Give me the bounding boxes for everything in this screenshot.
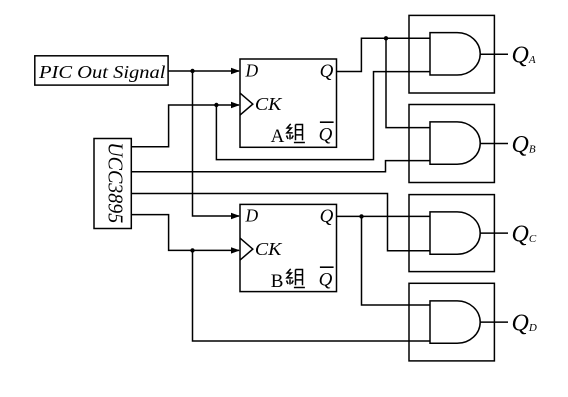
- FF1 clock edge-trigger triangle: [240, 93, 253, 115]
- CJK glyph 組 for FF1: [287, 124, 305, 143]
- AND gate U2 body: [430, 33, 480, 75]
- CJK glyph 組 for FF2: [287, 269, 305, 288]
- junction dot: CK-B line: [190, 248, 194, 252]
- svg-text:CK: CK: [255, 239, 283, 259]
- wire: node branch down to FF2 D input: [193, 71, 240, 216]
- svg-text:CK: CK: [255, 94, 283, 114]
- svg-text:Q: Q: [320, 61, 334, 82]
- wire: AND U4 output to QC: [480, 232, 508, 234]
- wire: UCC out2 to AND U3 input 2: [131, 161, 430, 172]
- overline of FF1 Qbar: [320, 121, 334, 123]
- wire: CK-A branch to AND U2 input 2: [216, 72, 430, 160]
- wire: FF1 Q output to AND U2 input 1: [337, 38, 431, 71]
- svg-text:D: D: [245, 61, 259, 81]
- AND gate U3 box: [409, 105, 494, 183]
- wire: UCC out1 to FF1 CK input: [131, 105, 239, 147]
- svg-text:Q: Q: [319, 269, 333, 290]
- wire: Q-A branch to AND U3 input 1: [386, 38, 430, 127]
- AND gate U3 body: [430, 122, 480, 164]
- junction dot: Q-A line: [384, 36, 388, 40]
- FF2 clock edge-trigger triangle: [240, 238, 253, 260]
- D flip-flop FF1 (A group) box: [240, 59, 337, 147]
- wire: AND U2 output to QA: [480, 53, 508, 55]
- arrowhead at FF1 D: [231, 68, 240, 74]
- wire: UCC out3 to AND U4 input 2: [131, 194, 430, 251]
- wire: AND U5 output to QD: [480, 321, 508, 323]
- wire: CK-B branch to AND U5 input 2: [193, 250, 431, 341]
- AND gate U5 box: [409, 283, 494, 361]
- svg-text:D: D: [245, 206, 259, 226]
- AND gate U4 box: [409, 195, 494, 272]
- overline of FF2 Qbar: [320, 266, 334, 268]
- svg-text:Q: Q: [319, 124, 333, 145]
- wire: Q-B branch to AND U5 input 1: [362, 216, 431, 305]
- arrowhead at FF2 D: [231, 213, 240, 219]
- junction dot: PIC line: [190, 69, 194, 73]
- wire: FF2 Q output to AND U4 input 1: [337, 215, 431, 217]
- junction dot: Q-B line: [359, 214, 363, 218]
- source box: PIC Out Signal: [35, 56, 168, 85]
- wire: AND U3 output to QB: [480, 143, 508, 145]
- AND gate U2 box: [409, 15, 494, 93]
- wire: PIC output to FF1 D input: [168, 70, 239, 72]
- arrowhead at FF2 CK: [231, 247, 240, 253]
- svg-text:Q: Q: [320, 206, 334, 227]
- svg-text:PIC Out Signal: PIC Out Signal: [38, 62, 166, 82]
- svg-text:A: A: [271, 126, 285, 147]
- D flip-flop FF2 (B group) box: [240, 204, 337, 291]
- arrowhead at FF1 CK: [231, 102, 240, 108]
- wire: UCC out4 to FF2 CK input: [131, 215, 239, 251]
- svg-text:B: B: [271, 271, 284, 292]
- IC U1 UCC3895 box: [94, 139, 131, 229]
- AND gate U5 body: [430, 301, 480, 343]
- AND gate U4 body: [430, 212, 480, 254]
- junction dot: CK-A line: [214, 103, 218, 107]
- svg-text:UCC3895: UCC3895: [103, 142, 127, 223]
